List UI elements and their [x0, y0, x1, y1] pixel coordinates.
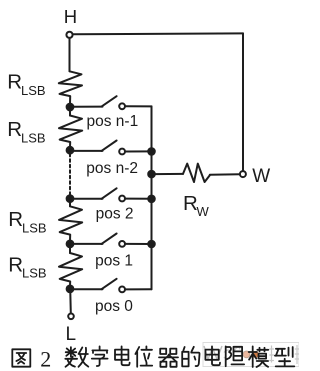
- wire node 0 down to L: [69, 292, 72, 313]
- switch pos 1: [73, 243, 103, 245]
- wire H terminal down: [69, 38, 71, 71]
- svg-text:pos n-2: pos n-2: [86, 160, 138, 177]
- resistor R_LSB 4: [59, 253, 82, 286]
- node W terminal: [240, 171, 246, 177]
- wire dashed ellipsis segment: [69, 154, 71, 195]
- caption char 字: [92, 346, 108, 366]
- svg-text:R: R: [8, 208, 23, 231]
- caption char 模: [249, 346, 269, 367]
- wire node to resistor 2: [69, 110, 71, 116]
- wire H top to right corner: [73, 32, 243, 35]
- caption char 数: [65, 347, 88, 367]
- svg-text:LSB: LSB: [21, 83, 46, 98]
- switch pos n-2: [73, 150, 103, 152]
- junction bus pos1: [148, 241, 155, 248]
- caption char 阻: [226, 346, 244, 366]
- wire wiper bus vertical: [151, 106, 153, 289]
- resistor R_LSB 3: [59, 206, 82, 240]
- caption char 位: [135, 346, 152, 366]
- node tap n-2: [67, 147, 74, 154]
- caption: 图 2 数字电位器的电阻模型 (hand-drawn glyphs): [12, 346, 294, 371]
- svg-text:R: R: [7, 71, 22, 94]
- wire node to resistor 3: [69, 202, 71, 206]
- svg-text:pos 2: pos 2: [96, 205, 134, 222]
- resistor R_LSB 2: [59, 116, 82, 147]
- caption char 电 (2nd): [205, 346, 220, 365]
- node H terminal: [66, 32, 72, 38]
- svg-text:H: H: [64, 6, 77, 27]
- resistor R_LSB 1: [59, 71, 82, 103]
- svg-text:L: L: [66, 324, 77, 345]
- junction bus pos2: [148, 196, 155, 203]
- svg-text:pos 1: pos 1: [95, 252, 133, 269]
- node L terminal: [68, 314, 74, 320]
- caption char 的: [182, 347, 199, 367]
- wire right vertical down to W: [242, 33, 244, 171]
- junction bus n-2: [148, 148, 155, 155]
- caption char 器: [159, 349, 178, 367]
- svg-text:W: W: [197, 204, 210, 219]
- watermark box: [203, 343, 299, 367]
- svg-text:R: R: [8, 253, 23, 276]
- svg-text:2: 2: [40, 347, 51, 371]
- switch pos 0: [73, 288, 103, 290]
- svg-text:W: W: [252, 166, 270, 187]
- svg-text:LSB: LSB: [22, 266, 47, 281]
- caption char 图: [12, 349, 30, 366]
- svg-text:LSB: LSB: [21, 130, 46, 145]
- svg-text:LSB: LSB: [22, 220, 47, 235]
- node tap 2: [67, 195, 74, 202]
- node tap 0: [67, 286, 74, 293]
- junction bus RW: [148, 171, 155, 178]
- node tap 1: [67, 241, 74, 248]
- wire RW to W: [210, 173, 240, 176]
- switch pos 2: [73, 198, 103, 200]
- wire bus to RW: [155, 173, 183, 175]
- svg-text:pos 0: pos 0: [95, 298, 133, 315]
- node tap n-1: [67, 104, 74, 111]
- switch pos n-1: [73, 106, 103, 108]
- svg-text:pos n-1: pos n-1: [87, 113, 139, 130]
- wire node to resistor 4: [69, 247, 71, 253]
- caption char 型: [275, 347, 294, 366]
- svg-text:R: R: [7, 118, 22, 141]
- resistor RW: [183, 164, 210, 182]
- caption char 电: [115, 346, 130, 365]
